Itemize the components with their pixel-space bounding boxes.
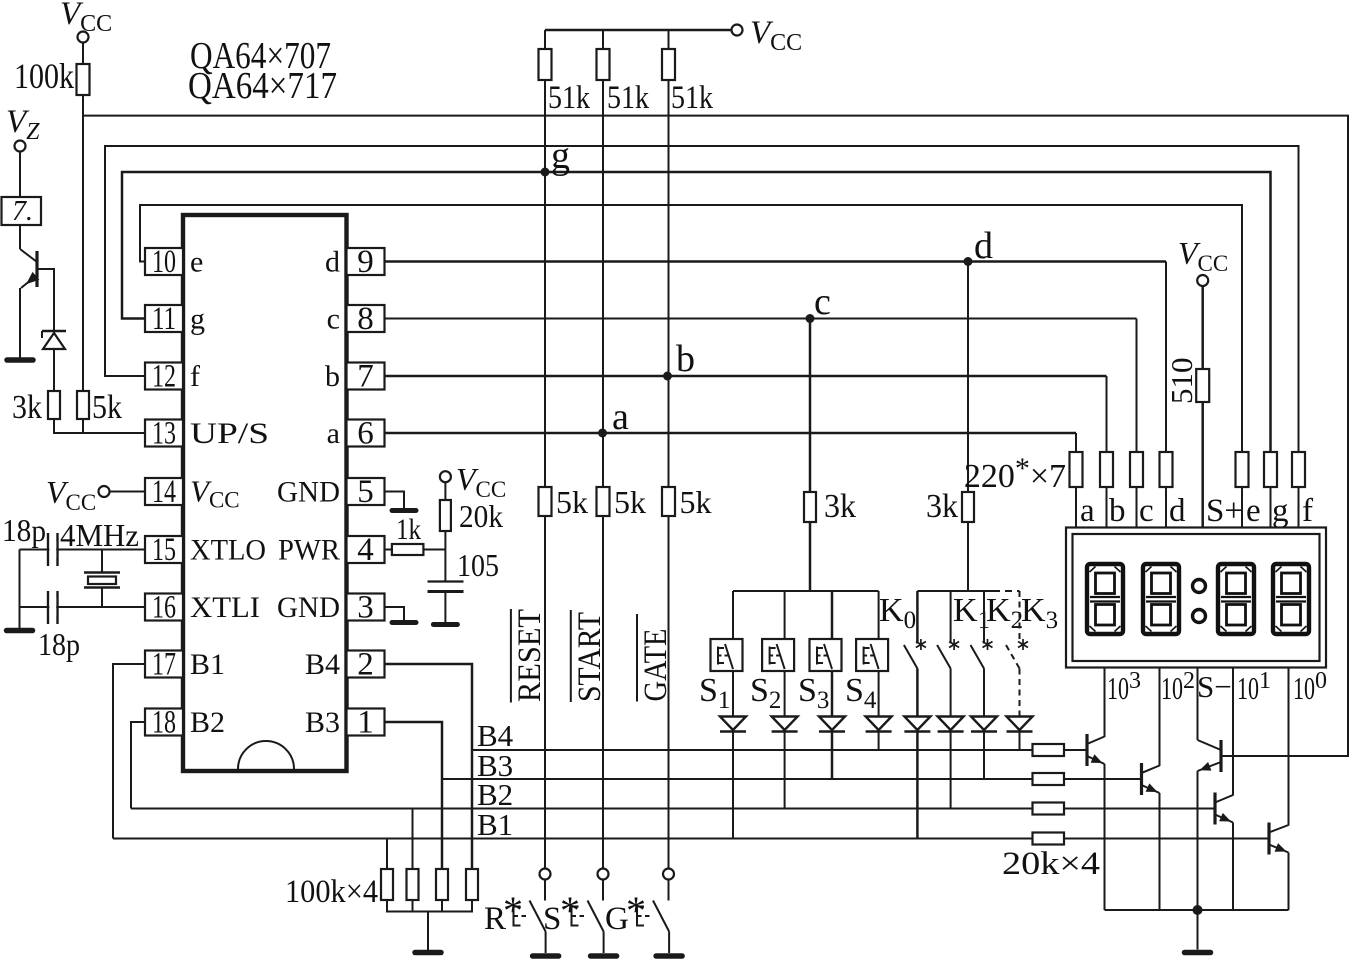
ground 100kx4 bbox=[415, 950, 441, 956]
svg-text:5k: 5k bbox=[556, 484, 588, 520]
wire 510 to display S+ bbox=[1201, 402, 1204, 529]
node VCC terminal (top middle) bbox=[732, 25, 743, 36]
switch S3 symbol bbox=[816, 647, 818, 665]
resistor 220 (d) bbox=[1160, 452, 1173, 487]
wire VCC to pin14 bbox=[110, 491, 146, 493]
box 7. (zener regulator block) bbox=[2, 197, 42, 225]
svg-text:e: e bbox=[190, 246, 203, 279]
switch S4 symbol bbox=[863, 647, 865, 665]
pin 1 box bbox=[347, 709, 385, 736]
pin 8 box bbox=[347, 305, 385, 332]
svg-text:18p: 18p bbox=[2, 512, 46, 548]
capacitor 105 bbox=[428, 580, 464, 582]
ground START bbox=[591, 953, 617, 959]
wire D2 to bus bbox=[784, 732, 786, 809]
wire cap to ground bbox=[444, 592, 446, 623]
resistor 51k bbox=[539, 49, 552, 80]
pin 4 box bbox=[347, 536, 385, 563]
op-amp U1 IC QA64 body bbox=[183, 215, 347, 771]
wire Q3 emitter to rail bbox=[1159, 793, 1161, 910]
svg-text:B2: B2 bbox=[190, 706, 225, 739]
wire D6 to bus bbox=[950, 732, 952, 809]
wire emitter common rail bbox=[1105, 909, 1289, 911]
wire K2 blade to diode bbox=[983, 669, 985, 717]
switch K2 blade bbox=[971, 645, 985, 669]
resistor 20k (Q3 base) bbox=[1033, 773, 1065, 785]
svg-text:a: a bbox=[327, 417, 340, 450]
resistor 20k (Q4 base) bbox=[1033, 803, 1065, 815]
svg-text:QA64×717: QA64×717 bbox=[188, 65, 337, 107]
svg-text:20k: 20k bbox=[459, 498, 503, 534]
wire VCC rail (top middle) bbox=[545, 29, 732, 32]
wire net f (pin12 to display f column) bbox=[105, 146, 1299, 452]
switch S1 box bbox=[711, 639, 743, 671]
switch K2 contact star bbox=[983, 639, 993, 650]
svg-text:1: 1 bbox=[1259, 668, 1271, 694]
svg-text:XTLI: XTLI bbox=[190, 591, 260, 624]
resistor 5k (RESET) bbox=[539, 487, 552, 516]
node START terminal bbox=[598, 869, 609, 880]
wire GATE column upper bbox=[668, 80, 670, 487]
svg-text:c: c bbox=[327, 303, 340, 336]
wire pin5 GND bbox=[385, 492, 405, 509]
wire K0 blade to diode bbox=[916, 669, 919, 717]
switch S3 box bbox=[810, 639, 842, 671]
node VCC terminal (PWR) bbox=[440, 471, 451, 482]
svg-text:18: 18 bbox=[152, 705, 176, 741]
wire S1 column stub bbox=[732, 591, 734, 639]
wire D7 to bus bbox=[983, 732, 985, 780]
svg-text:S−: S− bbox=[1197, 669, 1232, 704]
pin 3 box bbox=[347, 594, 385, 621]
switch plunger RESET bbox=[513, 906, 515, 927]
svg-text:11: 11 bbox=[152, 301, 176, 337]
svg-text:14: 14 bbox=[152, 474, 176, 510]
wire S3 column stub bbox=[831, 591, 834, 639]
svg-text:51k: 51k bbox=[671, 80, 713, 116]
svg-text:c: c bbox=[814, 281, 831, 323]
crystal 4MHz bbox=[101, 550, 103, 573]
node a junction bbox=[598, 429, 607, 438]
svg-text:GATE: GATE bbox=[638, 629, 674, 702]
wire K3 column stub bbox=[1019, 591, 1021, 644]
node rail junction bbox=[1193, 905, 1203, 915]
diode D6 bbox=[938, 717, 964, 731]
transistor Q1 bbox=[20, 249, 37, 262]
wire K1 blade to diode bbox=[950, 669, 952, 717]
resistor 220 (e) bbox=[1236, 452, 1249, 487]
switch S4 box bbox=[856, 639, 888, 671]
pin 7 box bbox=[347, 363, 385, 390]
wire bus B2 bbox=[131, 808, 1033, 810]
wire K switches top rail bbox=[917, 590, 993, 592]
resistor 3k (d) bbox=[962, 492, 974, 522]
wire 51k top stub bbox=[602, 30, 604, 49]
switch K0 contact star bbox=[916, 639, 926, 650]
wire START column lower bbox=[602, 516, 604, 868]
switch K1 contact star bbox=[949, 639, 959, 650]
wire 220 to display pin f bbox=[1298, 487, 1300, 529]
svg-text:10: 10 bbox=[152, 244, 176, 280]
svg-text:1k: 1k bbox=[396, 513, 421, 546]
wire Q4 emitter to rail bbox=[1232, 823, 1234, 911]
wire bus B4 bbox=[472, 749, 1033, 751]
wire 5k bottom bbox=[82, 419, 84, 433]
svg-text:105: 105 bbox=[457, 547, 499, 583]
svg-text:XTLO: XTLO bbox=[190, 534, 266, 567]
wire 20k to Q2 base bbox=[1064, 749, 1087, 751]
wire 20k to Q5 base bbox=[1064, 838, 1269, 840]
wire Q1 base to zener bbox=[37, 269, 54, 330]
pin 11 box bbox=[145, 305, 183, 332]
wire 100k bottom rail bbox=[387, 900, 472, 912]
IC bottom notch bbox=[238, 741, 294, 769]
wire D1 to bus bbox=[732, 732, 734, 839]
svg-text:B3: B3 bbox=[305, 706, 340, 739]
svg-text:b: b bbox=[325, 360, 340, 393]
switch plunger GATE bbox=[636, 906, 638, 927]
wire GATE to ground bbox=[668, 932, 670, 954]
digit 4 bbox=[1273, 564, 1309, 634]
svg-text:16: 16 bbox=[152, 590, 176, 626]
svg-text:4MHz: 4MHz bbox=[60, 517, 139, 553]
wire GATE column lower bbox=[668, 516, 670, 868]
wire D4 to bus bbox=[878, 732, 880, 751]
label RESET (rotated, active-low) bbox=[510, 609, 512, 703]
resistor 100k #4 bbox=[466, 869, 478, 900]
wire bus B3 bbox=[442, 778, 1033, 780]
switch S2 symbol bbox=[769, 647, 771, 665]
resistor 220 (b) bbox=[1100, 452, 1113, 487]
svg-text:e: e bbox=[1246, 493, 1261, 529]
wire VZ to Z box bbox=[19, 152, 21, 198]
resistor 220 (f) bbox=[1292, 452, 1305, 487]
pin 5 box bbox=[347, 478, 385, 505]
pin 6 box bbox=[347, 420, 385, 447]
wire net a (pin6) bbox=[385, 432, 1077, 435]
diode D7 bbox=[971, 717, 997, 731]
wire c column to resistor bbox=[1136, 319, 1138, 453]
wire K3 blade to diode bbox=[1019, 669, 1021, 717]
svg-text:5: 5 bbox=[357, 474, 374, 510]
wire net g (pin11 to display g column) bbox=[122, 172, 1271, 452]
switch K0 blade bbox=[904, 645, 918, 669]
svg-text:0: 0 bbox=[1315, 668, 1327, 694]
wire Q5 emitter to rail bbox=[1288, 853, 1290, 911]
wire VCC to 510 bbox=[1201, 286, 1204, 369]
ground Q1 bbox=[7, 357, 33, 363]
wire GATE switch stub bbox=[668, 880, 670, 901]
capacitor 18p (bottom) bbox=[47, 591, 49, 624]
ground RESET bbox=[533, 953, 559, 959]
wire b column to resistor bbox=[1106, 376, 1108, 452]
switch S1 symbol bbox=[717, 647, 719, 665]
svg-text:2: 2 bbox=[357, 647, 374, 683]
svg-text:GND: GND bbox=[277, 591, 340, 624]
wire RESET to ground bbox=[545, 932, 547, 954]
wire d column bbox=[967, 262, 969, 493]
resistor 20k bbox=[440, 500, 451, 531]
resistor 100k #2 bbox=[407, 869, 419, 900]
digit 2 bbox=[1143, 564, 1179, 634]
svg-text:*: * bbox=[626, 888, 646, 933]
wire VCC to 20k bbox=[444, 482, 446, 500]
wire S1 box to diode bbox=[732, 671, 734, 716]
wire pin18 to B2 bus bbox=[131, 722, 145, 809]
wire VCC to 100k bbox=[82, 43, 84, 65]
wire B2 to 100k #2 bbox=[412, 809, 414, 870]
wire 220 to display pin b bbox=[1106, 487, 1108, 529]
diode D8 bbox=[1007, 717, 1033, 731]
svg-text:g: g bbox=[190, 303, 205, 336]
pin 16 box bbox=[145, 594, 183, 621]
switch blade RESET bbox=[530, 901, 546, 932]
wire zener to 3k bbox=[53, 349, 55, 391]
colon bbox=[1193, 580, 1206, 593]
svg-text:510: 510 bbox=[1164, 358, 1199, 405]
wire net UP/S top rail (to right edge, down, to S- driver base) bbox=[83, 116, 1348, 756]
transistor Q5 bbox=[1267, 823, 1270, 855]
wire digit 10^2 column bbox=[1159, 668, 1161, 767]
wire S4 column stub bbox=[878, 591, 880, 639]
svg-text:g: g bbox=[1272, 493, 1289, 529]
svg-text:3: 3 bbox=[1129, 668, 1141, 694]
wire RESET column lower bbox=[544, 516, 546, 868]
wire bus B1 bbox=[113, 838, 1033, 840]
svg-text:a: a bbox=[1080, 493, 1095, 529]
wire K1 column stub bbox=[950, 591, 952, 644]
wire S2 box to diode bbox=[784, 671, 786, 716]
svg-text:1: 1 bbox=[357, 705, 374, 741]
svg-text:20k×4: 20k×4 bbox=[1002, 846, 1100, 882]
svg-text:5k: 5k bbox=[92, 389, 122, 426]
pin 15 box bbox=[145, 536, 183, 563]
switch plunger START bbox=[571, 906, 573, 927]
ground crystal bbox=[7, 628, 33, 634]
wire Q6 emitter to rail bbox=[1197, 771, 1199, 910]
svg-text:f: f bbox=[1302, 493, 1313, 529]
svg-text:a: a bbox=[612, 396, 629, 438]
svg-text:100k: 100k bbox=[14, 56, 74, 96]
wire START column upper bbox=[602, 80, 604, 487]
wire crystal left leg bbox=[19, 550, 21, 629]
resistor 20k (Q2 base) bbox=[1033, 744, 1065, 756]
svg-text:17: 17 bbox=[152, 647, 176, 683]
switch S2 box bbox=[762, 639, 794, 671]
resistor 100k #1 bbox=[381, 869, 393, 900]
wire Q1 emitter to ground bbox=[19, 288, 21, 358]
wire net d (pin9) bbox=[385, 260, 1167, 263]
svg-text:10: 10 bbox=[1293, 670, 1315, 706]
svg-text:3k: 3k bbox=[12, 389, 42, 426]
wire K rail dashed part bbox=[993, 590, 1020, 592]
svg-text:3k: 3k bbox=[926, 488, 958, 525]
wire pin1 to B3 bus bbox=[385, 722, 443, 869]
wire START to ground bbox=[603, 932, 605, 954]
wire 220 to display pin a bbox=[1075, 487, 1077, 529]
wire digit S- column bbox=[1197, 668, 1199, 741]
wire 220 to display pin g bbox=[1270, 487, 1272, 529]
wire Z box to Q1 collector bbox=[19, 225, 21, 249]
pin 14 box bbox=[145, 478, 183, 505]
svg-text:g: g bbox=[551, 135, 570, 177]
svg-text:10: 10 bbox=[1237, 670, 1259, 706]
node g junction bbox=[541, 168, 550, 177]
wire S4 box to diode bbox=[878, 671, 880, 716]
pin 9 box bbox=[347, 248, 385, 275]
switch blade GATE bbox=[653, 901, 669, 932]
wire digit 10^0 column bbox=[1288, 668, 1290, 826]
wire D3 to bus bbox=[831, 732, 834, 780]
svg-text:5k: 5k bbox=[680, 484, 712, 520]
switch K3 blade bbox=[1006, 645, 1020, 669]
resistor 51k bbox=[597, 49, 610, 80]
resistor 100k #3 bbox=[436, 869, 448, 900]
wire S2 column stub bbox=[784, 591, 786, 639]
svg-text:B1: B1 bbox=[190, 648, 225, 681]
svg-text:RESET: RESET bbox=[512, 609, 548, 702]
wire D8 to bus bbox=[1019, 732, 1021, 751]
transistor Q6 (S- driver, mirrored) bbox=[1219, 740, 1222, 772]
transistor Q2 bbox=[1085, 734, 1088, 766]
resistor 3k (left) bbox=[48, 391, 60, 419]
svg-text:10: 10 bbox=[1107, 670, 1129, 706]
label START (rotated, active-low) bbox=[570, 610, 572, 702]
wire 220 to display pin e bbox=[1241, 487, 1243, 529]
svg-text:6: 6 bbox=[357, 416, 374, 452]
wire 1k to PWR node bbox=[424, 549, 446, 551]
resistor 510 bbox=[1196, 369, 1209, 402]
wire S3 box to diode bbox=[831, 671, 834, 716]
pin 2 box bbox=[347, 651, 385, 678]
resistor 220 (a) bbox=[1070, 452, 1083, 487]
switch K3 contact star bbox=[1018, 639, 1028, 650]
label GATE (rotated, active-low) bbox=[636, 614, 638, 702]
svg-text:7.: 7. bbox=[12, 196, 33, 227]
svg-text:b: b bbox=[676, 338, 695, 380]
ground pin5 bbox=[392, 508, 416, 513]
wire net e (pin10 to display e column) bbox=[140, 205, 1242, 452]
svg-text:100k×4: 100k×4 bbox=[285, 874, 378, 910]
node VCC terminal (S+) bbox=[1197, 275, 1208, 286]
wire 220 to display pin d bbox=[1165, 487, 1167, 529]
wire B1 to 100k #1 bbox=[386, 839, 388, 870]
diode D4 bbox=[866, 717, 892, 731]
resistor 5k (START) bbox=[597, 487, 610, 516]
wire S switches top rail bbox=[733, 590, 879, 592]
transistor Q3 bbox=[1140, 763, 1143, 795]
wire 20k to Q4 base bbox=[1064, 808, 1215, 810]
svg-text:8: 8 bbox=[357, 301, 374, 337]
svg-text:*: * bbox=[560, 888, 580, 933]
resistor 5k (GATE) bbox=[662, 487, 675, 516]
svg-text:5k: 5k bbox=[614, 484, 646, 520]
wire 3k to S rail bbox=[809, 522, 812, 591]
pin 10 box bbox=[145, 248, 183, 275]
wire 3k to pin13 line bbox=[54, 419, 145, 433]
svg-text:4: 4 bbox=[357, 532, 374, 568]
wire net b (pin7) bbox=[385, 375, 1107, 378]
svg-text:d: d bbox=[1169, 493, 1186, 529]
resistor 3k (c) bbox=[804, 492, 816, 522]
resistor 220 (g) bbox=[1264, 452, 1277, 487]
svg-text:d: d bbox=[325, 246, 340, 279]
diode D2 bbox=[772, 717, 798, 731]
transistor Q4 bbox=[1213, 793, 1216, 825]
wire rail to ground bbox=[427, 912, 429, 951]
node c junction bbox=[806, 314, 815, 323]
digit 1 bbox=[1087, 564, 1123, 634]
wire K2 column stub bbox=[983, 591, 985, 644]
wire RESET column upper bbox=[544, 80, 546, 487]
wire 20k to cap 105 bbox=[444, 531, 446, 582]
capacitor 18p (top) bbox=[47, 533, 49, 566]
wire pin2 to B4 bus bbox=[385, 664, 473, 869]
node b junction bbox=[663, 372, 672, 381]
wire 100k down to 5k / pin13 net bbox=[82, 95, 84, 391]
svg-text:12: 12 bbox=[152, 359, 176, 395]
svg-text:13: 13 bbox=[152, 416, 176, 452]
svg-text:f: f bbox=[190, 360, 200, 393]
svg-text:B1: B1 bbox=[477, 807, 513, 842]
svg-text:GND: GND bbox=[277, 476, 340, 509]
svg-text:9: 9 bbox=[357, 244, 374, 280]
wire 3k to K rail bbox=[967, 522, 969, 591]
wire pin16 XTLI line bbox=[20, 606, 146, 608]
svg-text:d: d bbox=[974, 225, 993, 267]
wire Q2 emitter to rail bbox=[1104, 764, 1106, 910]
svg-text:*: * bbox=[503, 888, 523, 933]
wire START switch stub bbox=[602, 880, 604, 901]
display module box bbox=[1066, 528, 1326, 668]
zener diode DZ bbox=[42, 330, 66, 333]
wire digit 10^3 column bbox=[1104, 668, 1106, 738]
svg-text:18p: 18p bbox=[38, 626, 80, 662]
svg-text:3: 3 bbox=[357, 590, 374, 626]
pin 17 box bbox=[145, 651, 183, 678]
wire D5 to bus bbox=[916, 732, 919, 839]
wire net c (pin8) bbox=[385, 318, 1137, 320]
digit 3 bbox=[1218, 564, 1254, 634]
wire a column to resistor bbox=[1075, 433, 1077, 452]
node d junction bbox=[964, 257, 973, 266]
ground cap 105 bbox=[433, 622, 457, 627]
pin 12 box bbox=[145, 363, 183, 390]
svg-text:7: 7 bbox=[357, 359, 374, 395]
wire rail to ground bbox=[1197, 910, 1199, 950]
svg-text:c: c bbox=[1139, 493, 1154, 529]
wire pin17 to B1 bus bbox=[113, 664, 145, 839]
switch K1 blade bbox=[937, 645, 951, 669]
resistor 220 (c) bbox=[1130, 452, 1143, 487]
wire pin15 XTLO line bbox=[20, 549, 146, 551]
svg-text:S+: S+ bbox=[1206, 493, 1243, 529]
wire pin3 GND bbox=[385, 607, 405, 620]
wire pin4 to 1k bbox=[385, 549, 393, 551]
node RESET terminal bbox=[540, 869, 551, 880]
resistor 5k (left) bbox=[77, 391, 89, 419]
wire 51k top stub bbox=[544, 30, 546, 49]
wire d column to resistor bbox=[1165, 262, 1167, 453]
svg-text:10: 10 bbox=[1161, 670, 1183, 706]
ground GATE bbox=[656, 953, 682, 959]
resistor 20k (Q5 base) bbox=[1033, 833, 1065, 845]
diode D3 bbox=[819, 717, 845, 731]
svg-text:S: S bbox=[543, 901, 561, 937]
diode D1 bbox=[720, 717, 746, 731]
resistor 1k bbox=[392, 544, 424, 555]
diode D5 bbox=[904, 717, 930, 731]
